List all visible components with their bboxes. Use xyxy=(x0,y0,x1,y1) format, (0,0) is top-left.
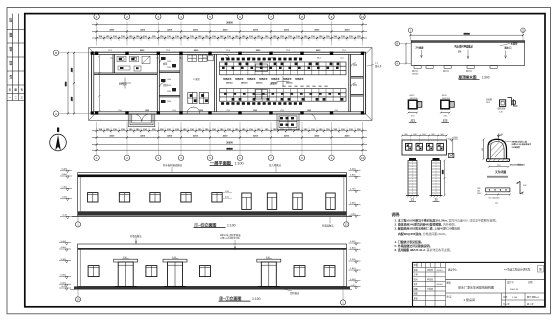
svg-text:4200: 4200 xyxy=(109,29,115,32)
svg-text:-0.45: -0.45 xyxy=(351,285,357,287)
svg-text:900: 900 xyxy=(422,134,425,136)
svg-text:M-1: M-1 xyxy=(317,57,320,59)
elevation 2 doors with canopies xyxy=(114,257,281,287)
lintel rebar bend symbol xyxy=(517,181,527,194)
svg-text:1500: 1500 xyxy=(167,85,171,87)
elevation 2 right level marks xyxy=(349,241,361,289)
svg-text:2%: 2% xyxy=(458,51,461,53)
svg-text:13: 13 xyxy=(361,156,365,160)
svg-text:1500: 1500 xyxy=(253,110,257,112)
svg-text:2004-15: 2004-15 xyxy=(510,289,519,291)
svg-text:3300: 3300 xyxy=(443,170,445,174)
title block company row xyxy=(448,265,544,272)
svg-text:屋顶排水图: 屋顶排水图 xyxy=(459,74,477,79)
svg-text:1:100: 1:100 xyxy=(227,223,236,227)
svg-text:C-2: C-2 xyxy=(226,110,229,112)
plan left axis circles A B xyxy=(53,50,91,116)
svg-text:4.800: 4.800 xyxy=(350,247,356,249)
elevation 2 windows xyxy=(88,266,335,277)
elevation 2 roof edge lines xyxy=(78,248,347,250)
column section detail JZ2 xyxy=(440,94,454,123)
roof diagram caption xyxy=(459,74,490,79)
elevation 2 inner edge lines xyxy=(80,249,344,286)
svg-text:1.500: 1.500 xyxy=(62,197,68,199)
svg-text:某水厂净水车间建筑结构图: 某水厂净水车间建筑结构图 xyxy=(458,285,494,290)
svg-text:①~⑬立面图: ①~⑬立面图 xyxy=(194,221,216,227)
bottom pit/tank protrusion xyxy=(277,114,299,130)
svg-text:200: 200 xyxy=(306,86,309,88)
svg-text:C-1: C-1 xyxy=(202,57,205,59)
elevation 2 caption xyxy=(219,295,261,301)
plan bottom dimension chains xyxy=(92,130,367,146)
svg-text:Φ6@200: Φ6@200 xyxy=(442,97,451,100)
svg-text:-0.45: -0.45 xyxy=(62,215,68,217)
north arrow xyxy=(50,128,67,151)
svg-text:4200: 4200 xyxy=(345,135,351,138)
svg-text:2.400: 2.400 xyxy=(62,187,68,189)
svg-text:××市政工程设计研究院: ××市政工程设计研究院 xyxy=(504,267,531,271)
svg-text:女儿墙做法: 女儿墙做法 xyxy=(269,163,282,167)
equipment band dark cell marks xyxy=(225,63,344,101)
plan bottom axis circles xyxy=(94,148,365,161)
svg-text:C-2: C-2 xyxy=(334,110,337,112)
svg-text:DN150: DN150 xyxy=(226,82,233,84)
svg-text:5.400: 5.400 xyxy=(350,168,356,170)
svg-text:DN150: DN150 xyxy=(256,82,263,84)
column elevation base hatches xyxy=(407,196,442,198)
svg-text:200: 200 xyxy=(324,86,327,88)
svg-text:1500: 1500 xyxy=(145,110,149,112)
svg-text:JZ2: JZ2 xyxy=(443,119,448,123)
elevation 2 step note xyxy=(280,288,300,295)
svg-text:1#泵房: 1#泵房 xyxy=(119,82,127,86)
svg-text:1:100: 1:100 xyxy=(512,297,518,299)
svg-text:4800: 4800 xyxy=(72,97,74,101)
filter hall upper equipment dark hatch row xyxy=(221,58,302,61)
svg-text:4200: 4200 xyxy=(345,29,351,32)
svg-text:4200: 4200 xyxy=(140,29,146,32)
elevation 2 ground band xyxy=(70,286,352,289)
elevation 1 left level marks xyxy=(60,168,72,218)
svg-text:4200: 4200 xyxy=(223,135,229,138)
elevation 1 parapet band xyxy=(78,175,347,178)
svg-text:4200: 4200 xyxy=(193,135,199,138)
svg-text:900: 900 xyxy=(431,134,434,136)
svg-text:4200: 4200 xyxy=(314,135,320,138)
svg-text:C-1: C-1 xyxy=(340,57,343,59)
svg-text:200: 200 xyxy=(300,86,303,88)
svg-text:4.800: 4.800 xyxy=(61,247,67,249)
svg-text:4200: 4200 xyxy=(223,29,229,32)
svg-text:Φ6@200: Φ6@200 xyxy=(409,97,418,100)
toilet room extra marks xyxy=(119,58,139,69)
svg-text:4200: 4200 xyxy=(167,135,173,138)
extra fine dimension numbers top xyxy=(106,36,354,38)
elevation 1 right wall note xyxy=(322,217,334,228)
revision table texts xyxy=(414,263,444,300)
svg-text:-0.45: -0.45 xyxy=(61,286,67,288)
svg-text:900: 900 xyxy=(482,148,484,151)
svg-text:M-1: M-1 xyxy=(179,57,182,59)
plan structural columns xyxy=(91,52,365,115)
svg-text:Φ12: Φ12 xyxy=(523,184,527,187)
svg-text:DN150: DN150 xyxy=(271,82,278,84)
svg-text:4200: 4200 xyxy=(314,29,320,32)
svg-text:C-1: C-1 xyxy=(110,57,113,59)
svg-text:JZ1: JZ1 xyxy=(410,119,415,123)
top dimension numbers xyxy=(98,22,361,38)
plan room labels xyxy=(119,37,357,88)
plan top extension lines xyxy=(97,22,363,46)
svg-text:C-2: C-2 xyxy=(280,110,283,112)
svg-text:DN100: DN100 xyxy=(412,73,419,75)
roof slope arrows and notes xyxy=(416,42,519,59)
gutter detail leader notes xyxy=(505,140,531,167)
svg-text:200: 200 xyxy=(294,86,297,88)
svg-text:39600: 39600 xyxy=(226,22,233,25)
svg-text:1500: 1500 xyxy=(199,110,203,112)
elevation 2 left level marks xyxy=(59,241,71,291)
svg-text:1.800: 1.800 xyxy=(350,268,356,270)
svg-text:4Φ12: 4Φ12 xyxy=(442,94,448,97)
svg-text:39600: 39600 xyxy=(226,142,233,145)
svg-text:3.300: 3.300 xyxy=(61,259,67,261)
filter hall corridor dimension texts xyxy=(282,86,327,88)
column section detail JZ1 xyxy=(407,94,421,123)
title block name row xyxy=(447,295,540,306)
svg-text:DN150: DN150 xyxy=(241,82,248,84)
title block project row xyxy=(447,280,534,291)
svg-text:(a): (a) xyxy=(495,203,498,205)
svg-text:2004.6: 2004.6 xyxy=(437,284,444,286)
plan centre axis crosses xyxy=(119,76,290,89)
floor plan caption xyxy=(210,159,244,166)
filter hall label text rows xyxy=(223,77,304,84)
svg-text:B: B xyxy=(55,51,57,55)
svg-text:1500: 1500 xyxy=(167,91,171,93)
svg-text:39600: 39600 xyxy=(226,148,233,150)
svg-text:1500: 1500 xyxy=(167,79,171,81)
elevation 1 body xyxy=(78,173,347,217)
floor plan roof overhang outline xyxy=(89,48,372,121)
svg-text:13: 13 xyxy=(361,15,365,19)
svg-text:内配Φ6@200双向, 分格缝间距≤6000。: 内配Φ6@200双向, 分格缝间距≤6000。 xyxy=(398,231,448,236)
svg-text:⑬~①立面图: ⑬~①立面图 xyxy=(219,295,241,301)
roof rain outlets below xyxy=(414,66,497,69)
svg-text:4200: 4200 xyxy=(253,135,259,138)
filter hall equipment band lower xyxy=(220,89,347,102)
svg-text:3. 屋面采用SBS防水卷材二道, 上铺40厚C20细石砼: 3. 屋面采用SBS防水卷材二道, 上铺40厚C20细石砼 xyxy=(395,225,461,230)
svg-text:0.000: 0.000 xyxy=(61,282,67,284)
plan interior partition walls xyxy=(94,54,364,111)
title block revision sub-table xyxy=(413,262,446,307)
svg-text:1500: 1500 xyxy=(307,110,311,112)
plan window labels row xyxy=(108,49,346,52)
svg-text:4.800: 4.800 xyxy=(350,175,356,177)
plan top axis circles xyxy=(94,14,365,19)
plan top dimension chains xyxy=(92,24,367,40)
column detail dimension xyxy=(443,160,446,197)
roof diagram axis circles 1 and 13 xyxy=(408,28,525,41)
small rooms fixtures xyxy=(161,57,176,103)
svg-text:C-2: C-2 xyxy=(118,110,121,112)
elevation 2 end axis circles xyxy=(75,289,345,305)
svg-text:0.450: 0.450 xyxy=(350,279,356,281)
svg-text:5.400: 5.400 xyxy=(350,241,356,243)
roof diagram top dimension xyxy=(409,33,524,36)
sign-off table row texts xyxy=(9,18,24,100)
svg-text:C-2: C-2 xyxy=(172,110,175,112)
svg-text:300: 300 xyxy=(404,134,407,136)
roof note text above elevation1 xyxy=(163,163,282,173)
svg-text:说明:: 说明: xyxy=(392,212,401,217)
roof diagram body xyxy=(411,41,524,66)
elevation 1 window callout xyxy=(222,191,232,199)
roof outlet labels xyxy=(412,69,472,76)
svg-text:2Φ12: 2Φ12 xyxy=(477,192,481,195)
svg-text:-0.060: -0.060 xyxy=(452,137,459,139)
svg-text:2Φ6: 2Φ6 xyxy=(477,187,480,190)
svg-text:3.300: 3.300 xyxy=(350,259,356,261)
svg-text:4200: 4200 xyxy=(193,29,199,32)
svg-text:4200: 4200 xyxy=(109,135,115,138)
plan bottom overall dimension line xyxy=(92,148,367,151)
plan door swing arcs xyxy=(134,54,356,121)
svg-text:防水卷材屋面做法: 防水卷材屋面做法 xyxy=(163,163,183,167)
elevation 1 tall windows xyxy=(242,193,335,209)
svg-text:2.700: 2.700 xyxy=(350,189,356,191)
foundation beam level mark xyxy=(448,137,459,157)
title block outer frame xyxy=(413,262,545,307)
elevation 1 right level marks xyxy=(349,168,361,217)
plan left vertical dimension lines xyxy=(66,52,75,115)
svg-text:200: 200 xyxy=(288,86,291,88)
svg-text:2004.6: 2004.6 xyxy=(437,270,444,272)
foundation beam section marks xyxy=(406,143,444,150)
entrance porch with steps bottom xyxy=(128,114,155,127)
elevation 1 end axis circles xyxy=(75,216,349,227)
svg-text:200: 200 xyxy=(312,86,315,88)
elevation 1 caption xyxy=(194,221,236,227)
svg-text:DN150: DN150 xyxy=(286,82,293,84)
svg-text:4200: 4200 xyxy=(253,29,259,32)
gutter detail profile xyxy=(482,134,510,162)
svg-text:4800: 4800 xyxy=(72,68,74,72)
svg-text:300: 300 xyxy=(440,134,443,136)
roof diagram left axis circles xyxy=(395,41,411,65)
svg-text:1:20: 1:20 xyxy=(499,111,503,113)
svg-text:4200: 4200 xyxy=(284,135,290,138)
svg-text:4200: 4200 xyxy=(284,29,290,32)
svg-text:4200: 4200 xyxy=(167,29,173,32)
bottom dimension numbers xyxy=(106,129,354,145)
svg-text:750: 750 xyxy=(497,165,500,167)
title block right rows xyxy=(446,279,545,307)
elevation 1 ground band xyxy=(72,211,352,216)
wall tie detail xyxy=(486,98,518,114)
elevation 1 small windows xyxy=(88,193,223,202)
svg-text:1:300: 1:300 xyxy=(482,75,490,79)
notes body lines xyxy=(395,218,499,253)
svg-text:C-1: C-1 xyxy=(156,57,159,59)
svg-text:900: 900 xyxy=(413,134,416,136)
svg-text:1500: 1500 xyxy=(167,67,171,69)
elevation 2 body xyxy=(78,244,347,286)
plan interior vertical dimension xyxy=(98,55,100,112)
column elevation detail Z2 xyxy=(430,158,443,201)
svg-text:6. 选用图集 98ZJ7-31-2. 其余详见各专业图。: 6. 选用图集 98ZJ7-31-2. 其余详见各专业图。 xyxy=(395,247,453,252)
svg-text:200: 200 xyxy=(318,86,321,88)
filter hall lower equipment dark hatch row xyxy=(221,102,302,105)
svg-text:1:100: 1:100 xyxy=(252,297,261,301)
svg-text:1500: 1500 xyxy=(167,61,171,63)
svg-text:5.60: 5.60 xyxy=(500,134,504,136)
svg-text:4.800: 4.800 xyxy=(62,174,68,176)
plan interior opening labels xyxy=(110,57,343,112)
small rooms dims xyxy=(167,61,171,103)
svg-text:0.900: 0.900 xyxy=(61,275,67,277)
svg-text:5.400: 5.400 xyxy=(61,241,67,243)
lintel detail xyxy=(477,187,511,205)
notes heading xyxy=(392,212,401,217)
column elevation detail Z1 xyxy=(406,158,419,201)
svg-text:A: A xyxy=(55,112,57,116)
elevation 2 wall finish notes above xyxy=(130,233,241,250)
svg-text:1500: 1500 xyxy=(167,101,171,103)
svg-text:5.400: 5.400 xyxy=(62,168,68,170)
pump room lower equipment blocks xyxy=(188,93,209,104)
svg-text:39600: 39600 xyxy=(464,33,471,35)
svg-text:1 泵房间: 1 泵房间 xyxy=(464,297,476,302)
gutter detail dimension and caption xyxy=(487,165,510,178)
foundation beam detail xyxy=(401,134,448,155)
plan pump room equipment blocks xyxy=(188,55,268,99)
floor plan exterior walls xyxy=(92,52,366,114)
svg-text:-0.45: -0.45 xyxy=(351,213,357,215)
filter hall equipment band upper xyxy=(220,62,347,75)
filter hall mid extra marks band2 xyxy=(224,93,341,95)
pit interior marks xyxy=(280,117,294,126)
extra fine dimension numbers bottom xyxy=(98,129,361,131)
svg-text:GL 240x180: GL 240x180 xyxy=(489,197,501,199)
svg-text:13: 13 xyxy=(345,223,348,227)
svg-text:4200: 4200 xyxy=(140,135,146,138)
plan right side note text xyxy=(367,63,382,68)
svg-text:天沟详图: 天沟详图 xyxy=(495,170,506,174)
plan toilet fixtures top-left room xyxy=(117,56,150,71)
filter hall mid extra marks band1 xyxy=(222,67,339,69)
plan bottom extension lines xyxy=(97,122,363,148)
elevation 1 inner edge lines xyxy=(80,177,344,211)
svg-text:1:100: 1:100 xyxy=(235,161,244,165)
sign-off table top-left xyxy=(7,14,25,101)
svg-text:13: 13 xyxy=(77,298,80,302)
svg-text:0.900: 0.900 xyxy=(350,203,356,205)
